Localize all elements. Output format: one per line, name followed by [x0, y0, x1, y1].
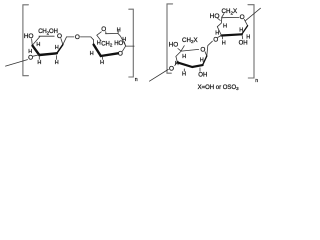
ring3 OH below — [198, 72, 207, 78]
ring2 ring oxygen O — [118, 50, 123, 57]
ring1 edge O to C1 — [61, 39, 63, 45]
legend X=OH or OSO3 — [198, 85, 240, 91]
ring3 ring oxygen O — [200, 47, 205, 54]
ring1 edge C2 to C1 — [57, 45, 63, 54]
svg-text:H: H — [97, 41, 101, 47]
ring3 bond CH2X to C5 — [181, 46, 184, 51]
ring1 edge C4 to C5 — [32, 37, 40, 46]
ring3 H left near exit O — [175, 61, 179, 67]
ring2 corner H — [117, 27, 121, 33]
ring4 bond CH2X to C5 — [222, 14, 224, 18]
ring2 H left below — [90, 51, 94, 57]
ring4 top edge — [222, 16, 239, 18]
svg-text:H: H — [239, 28, 243, 34]
glycosidic bond right segment — [80, 36, 90, 38]
ring1 exit O label on C3 — [28, 55, 33, 62]
bend down into ring2 — [91, 37, 94, 40]
ring3 bond HO to C5 — [178, 49, 181, 51]
ring1 H on C4 inside — [36, 42, 40, 48]
svg-text:n: n — [135, 77, 138, 83]
right bracket structure1 — [129, 9, 134, 77]
svg-text:H: H — [215, 31, 219, 37]
ring4 edge O to C1 — [244, 19, 247, 25]
ring2 tick to corner H — [117, 31, 119, 34]
label CH2OH ring1 — [38, 29, 58, 35]
svg-text:H: H — [222, 41, 226, 47]
glycosidic O label structure2 — [213, 36, 218, 43]
ring3 bond C3 to exit O — [175, 63, 177, 66]
svg-text:H: H — [223, 24, 227, 30]
ring2 left vertical edge — [93, 40, 95, 45]
svg-text:n: n — [255, 78, 258, 84]
ring3 H below — [182, 72, 186, 78]
ring2 H above C1 — [122, 37, 126, 43]
ring2 HO label — [114, 41, 123, 47]
left bracket structure1 — [23, 5, 29, 76]
ring2 tick below bottom — [101, 57, 103, 59]
svg-text:H: H — [182, 72, 186, 78]
exit diagonal through left bracket — [6, 60, 28, 67]
ring3 tick below right — [199, 68, 201, 72]
ring3 H inside near C4 — [182, 54, 186, 60]
ring4 HO label — [210, 13, 220, 20]
ring4 exit diagonal through right bracket — [245, 8, 260, 21]
ring2 bridge bond right — [105, 32, 107, 34]
ring1 bond O to C3 — [33, 55, 39, 56]
svg-text:H: H — [55, 45, 59, 51]
ring2 bridge bond left — [97, 32, 102, 41]
svg-text:H: H — [246, 34, 250, 40]
ring4 bond C2 to OH — [241, 35, 244, 39]
svg-text:H: H — [100, 60, 104, 66]
exit diagonal through left bracket structure2 — [149, 69, 168, 81]
svg-text:O: O — [200, 47, 205, 54]
ring4 edge C1 to C2 — [242, 26, 248, 35]
svg-text:HO: HO — [114, 41, 123, 47]
ring3 vertical bond C1 up to glycosidic O — [207, 41, 213, 56]
ring1 bold wedge C4 to C3 — [33, 46, 40, 55]
ring4 H below bottom — [222, 41, 226, 47]
glycosidic bond left segment — [67, 36, 75, 38]
ring2 H inside near C5 — [97, 41, 101, 47]
ring2 anhydro bridge O — [101, 26, 106, 33]
ring2 exit line to right bracket — [126, 45, 135, 47]
subscript n structure2 — [255, 78, 258, 84]
ring3 tick below left — [183, 69, 185, 71]
glycosidic O label — [75, 34, 80, 41]
ring1 C1 to glycosidic bond — [63, 37, 67, 45]
svg-text:OH: OH — [198, 72, 207, 78]
subscript n structure1 — [135, 77, 138, 83]
svg-text:HO: HO — [24, 33, 34, 40]
svg-text:O: O — [28, 55, 33, 62]
ring2 bond O to C1 — [122, 46, 125, 51]
ring3 H inside near C1 — [200, 58, 204, 64]
ring4 edge C3 to C4 — [217, 27, 221, 36]
svg-text:OH: OH — [239, 40, 248, 46]
ring3 HO label — [169, 41, 179, 48]
svg-text:H: H — [55, 60, 59, 66]
ring4 bold bottom edge — [222, 34, 242, 35]
ring2 bold bottom edge — [101, 53, 118, 56]
ring1 ring oxygen O — [57, 33, 62, 40]
svg-text:CH2: CH2 — [101, 42, 113, 48]
ring2 bold wedge left — [94, 45, 101, 56]
ring4 H right — [246, 34, 250, 40]
svg-text:H: H — [117, 27, 121, 33]
ring1 H below C2 — [55, 60, 59, 66]
ring2 CH2 label — [101, 42, 113, 48]
svg-text:X=OH or OSO3: X=OH or OSO3 — [198, 85, 240, 91]
ring4 edge C4 to C5 — [217, 18, 222, 27]
ring3 edge C2 to C1 — [203, 56, 207, 65]
svg-text:O: O — [169, 66, 174, 73]
svg-text:CH2X: CH2X — [182, 37, 198, 44]
ring2 right edge down to C1 — [118, 34, 126, 46]
ring3 edge O to C1 — [205, 52, 207, 56]
ring4 H on C2 upper — [239, 28, 243, 34]
ring4 CH2X label — [222, 8, 238, 15]
ring4 bond HO to ring — [218, 18, 221, 20]
ring1 top edge — [39, 35, 54, 37]
ring4 tick below bottom — [222, 37, 224, 39]
svg-text:HO: HO — [169, 41, 179, 48]
ring1 bond HO to C4 — [31, 39, 34, 45]
svg-text:H: H — [36, 42, 40, 48]
svg-text:O: O — [240, 14, 245, 21]
ring3 exit O label — [169, 66, 174, 73]
svg-text:O: O — [75, 34, 80, 41]
ring1 HO label — [24, 33, 34, 40]
ring1 H near exit O — [28, 49, 32, 55]
right bracket structure2 — [248, 5, 254, 78]
svg-text:H: H — [90, 51, 94, 57]
left bracket structure2 — [167, 4, 173, 73]
ring1 H below C3 — [37, 60, 41, 66]
ring2 H below bottom — [100, 60, 104, 66]
ring1 C3 tick down — [38, 56, 40, 59]
bond glycosidic O up to ring4 — [218, 36, 221, 38]
ring3 CH2X label — [182, 37, 198, 44]
ring1 bold bottom edge C3 to C2 — [39, 53, 57, 55]
ring1 H on C2 inside — [55, 45, 59, 51]
ring4 H inside — [223, 24, 227, 30]
ring3 edge C4 to C3 — [176, 56, 178, 62]
ring2 top edge — [106, 33, 119, 35]
svg-text:H: H — [182, 54, 186, 60]
ring2 bond C1 to H — [124, 42, 125, 46]
ring4 OH below — [239, 40, 248, 46]
ring3 top edge — [181, 49, 199, 51]
ring3 edge C5 to C4 — [176, 51, 181, 56]
ring1 C2 tick down — [56, 56, 58, 60]
ring4 H left — [215, 31, 219, 37]
svg-text:CH2OH: CH2OH — [38, 29, 58, 35]
svg-text:H: H — [37, 60, 41, 66]
ring4 ring oxygen O — [240, 14, 245, 21]
ring3 bold bottom edges — [177, 62, 202, 67]
